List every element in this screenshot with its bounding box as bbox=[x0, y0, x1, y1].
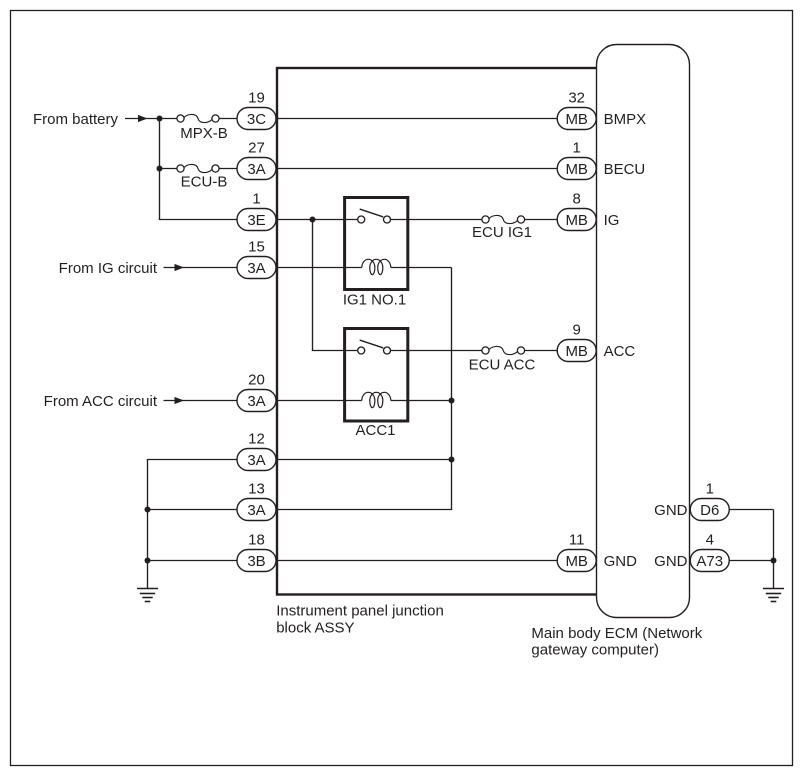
ECM body (rounded box) bbox=[597, 45, 690, 618]
fuse ECU IG1 bbox=[472, 215, 532, 241]
connector MB pin11 bbox=[557, 550, 596, 572]
svg-text:GND: GND bbox=[654, 502, 688, 519]
svg-text:MB: MB bbox=[565, 111, 588, 128]
connector 3A pin13 bbox=[237, 499, 276, 521]
svg-text:3A: 3A bbox=[247, 393, 265, 410]
connector MB pin32 bbox=[557, 108, 596, 130]
fuse ECU ACC bbox=[469, 346, 536, 373]
arrowhead battery bbox=[138, 115, 148, 122]
svg-text:From IG circuit: From IG circuit bbox=[59, 260, 158, 277]
svg-text:A73: A73 bbox=[696, 553, 723, 570]
wire ACC1 switch out to ECU ACC bbox=[391, 350, 482, 352]
junction coil return bbox=[449, 398, 455, 404]
wire A73 to ground bus bbox=[729, 560, 774, 562]
wire tap to ECU-B bbox=[160, 168, 177, 170]
connector 3A pin12 bbox=[237, 449, 276, 471]
junction ground bus / 3A13 bbox=[145, 507, 151, 513]
svg-text:ECU-B: ECU-B bbox=[181, 174, 228, 191]
connector MB pin1 bbox=[557, 158, 596, 180]
svg-text:1: 1 bbox=[706, 481, 714, 498]
svg-text:BECU: BECU bbox=[604, 161, 646, 178]
relay IG1 coil bbox=[362, 259, 391, 274]
svg-text:Instrument panel junction: Instrument panel junction bbox=[276, 603, 444, 620]
wire 3A to MB1 bbox=[276, 168, 557, 170]
svg-text:18: 18 bbox=[248, 532, 265, 549]
svg-text:19: 19 bbox=[248, 90, 265, 107]
svg-text:D6: D6 bbox=[700, 502, 719, 519]
svg-text:3A: 3A bbox=[247, 452, 265, 469]
wire 3A13 to relay return bbox=[276, 509, 452, 511]
svg-text:IG1 NO.1: IG1 NO.1 bbox=[343, 292, 406, 309]
svg-text:ACC1: ACC1 bbox=[355, 422, 395, 439]
svg-text:gateway computer): gateway computer) bbox=[531, 642, 659, 659]
wire 3A to ACC1 coil bbox=[276, 400, 362, 402]
wire 3A to IG1 coil bbox=[276, 267, 362, 269]
arrowhead IG circuit bbox=[175, 264, 185, 271]
svg-text:MB: MB bbox=[565, 212, 588, 229]
junction right ground bus bbox=[771, 558, 777, 564]
svg-text:GND: GND bbox=[654, 553, 688, 570]
wire ECU IG1 to MB8 bbox=[525, 219, 558, 221]
fuse MPX-B bbox=[177, 114, 228, 141]
svg-text:ECU IG1: ECU IG1 bbox=[472, 224, 532, 241]
svg-text:IG: IG bbox=[604, 212, 620, 229]
wire right ground vertical bbox=[773, 510, 775, 589]
svg-text:From battery: From battery bbox=[33, 111, 119, 128]
relay ACC1 box bbox=[345, 329, 408, 422]
wire ECU ACC to MB9 bbox=[525, 350, 558, 352]
svg-text:4: 4 bbox=[706, 532, 714, 549]
wire 3E to IG1 switch bbox=[276, 219, 358, 221]
svg-text:MB: MB bbox=[565, 161, 588, 178]
wire ACC1 coil out bbox=[391, 400, 452, 402]
svg-text:12: 12 bbox=[248, 431, 265, 448]
svg-text:3B: 3B bbox=[247, 553, 265, 570]
svg-text:3A: 3A bbox=[247, 260, 265, 277]
svg-text:MPX-B: MPX-B bbox=[180, 125, 228, 142]
svg-text:GND: GND bbox=[604, 553, 638, 570]
connector A73 bbox=[690, 550, 729, 572]
svg-text:MB: MB bbox=[565, 343, 588, 360]
svg-text:3A: 3A bbox=[247, 161, 265, 178]
junction relay return / 3A12 bbox=[449, 457, 455, 463]
svg-text:20: 20 bbox=[248, 372, 265, 389]
svg-text:1: 1 bbox=[573, 140, 581, 157]
wire 3C to MB32 bbox=[276, 118, 557, 120]
wire ground bus vertical bbox=[147, 460, 149, 589]
junction node to ACC relay feed bbox=[310, 217, 316, 223]
wire battery lead bbox=[125, 118, 177, 120]
connector 3A pin20 bbox=[237, 390, 276, 412]
wire IG circuit lead bbox=[164, 267, 238, 269]
wire ACC feed vertical bbox=[312, 220, 314, 351]
junction battery node bbox=[157, 116, 163, 122]
wire ground bus to 3A12 bbox=[147, 459, 237, 461]
relay ACC1 switch contacts bbox=[358, 340, 391, 354]
wire bus corner to 3E bbox=[159, 219, 237, 221]
junction ground bus / 3B bbox=[145, 558, 151, 564]
svg-text:From ACC circuit: From ACC circuit bbox=[44, 393, 158, 410]
svg-text:11: 11 bbox=[569, 532, 585, 549]
wire ground bus to 3A13 bbox=[148, 509, 238, 511]
wire ground bus to 3B bbox=[148, 560, 238, 562]
junction ECU-B tap bbox=[157, 166, 163, 172]
connector MB pin8 bbox=[557, 209, 596, 231]
svg-text:1: 1 bbox=[252, 191, 260, 208]
ground symbol left bbox=[137, 589, 158, 602]
svg-text:3C: 3C bbox=[247, 111, 266, 128]
svg-text:block ASSY: block ASSY bbox=[276, 619, 354, 636]
ground symbol right bbox=[763, 589, 784, 602]
svg-text:9: 9 bbox=[573, 322, 581, 339]
wire battery bus vertical bbox=[159, 119, 161, 220]
connector 3A pin27 bbox=[237, 158, 276, 180]
junction block ASSY outline bbox=[277, 68, 600, 595]
wire IG1 switch out to ECU IG1 bbox=[391, 219, 482, 221]
svg-text:32: 32 bbox=[568, 90, 585, 107]
relay IG1 NO.1 box bbox=[345, 198, 408, 290]
wire 3A12 to relay return bbox=[276, 459, 452, 461]
arrowhead ACC circuit bbox=[175, 397, 185, 404]
svg-text:8: 8 bbox=[573, 191, 581, 208]
svg-text:ECU ACC: ECU ACC bbox=[469, 356, 536, 373]
svg-text:15: 15 bbox=[248, 239, 265, 256]
connector 3C bbox=[237, 108, 276, 130]
svg-text:27: 27 bbox=[248, 140, 265, 157]
svg-text:ACC: ACC bbox=[604, 343, 636, 360]
wire D6 to ground bus bbox=[729, 509, 774, 511]
wire ECU-B to 3A bbox=[219, 168, 237, 170]
svg-text:MB: MB bbox=[565, 553, 588, 570]
svg-text:BMPX: BMPX bbox=[604, 111, 647, 128]
svg-text:13: 13 bbox=[248, 481, 265, 498]
wire MPX-B to 3C bbox=[219, 118, 237, 120]
svg-text:3A: 3A bbox=[247, 502, 265, 519]
relay ACC1 coil bbox=[362, 392, 391, 407]
wire ACC feed corner to ACC1 switch bbox=[312, 350, 358, 352]
connector 3B pin18 bbox=[237, 550, 276, 572]
fuse ECU-B bbox=[177, 164, 227, 190]
connector 3E bbox=[237, 209, 276, 231]
wire IG1 coil out bbox=[391, 267, 452, 269]
svg-text:3E: 3E bbox=[247, 212, 265, 229]
connector MB pin9 bbox=[557, 340, 596, 362]
connector 3A pin15 bbox=[237, 257, 276, 279]
svg-text:Main body ECM (Network: Main body ECM (Network bbox=[531, 625, 702, 642]
relay IG1 switch contacts bbox=[358, 209, 391, 223]
wire 3B to MB11 bbox=[276, 560, 557, 562]
connector D6 bbox=[690, 499, 729, 521]
wire relay return vertical bbox=[451, 268, 453, 510]
wire ACC circuit lead bbox=[164, 400, 238, 402]
